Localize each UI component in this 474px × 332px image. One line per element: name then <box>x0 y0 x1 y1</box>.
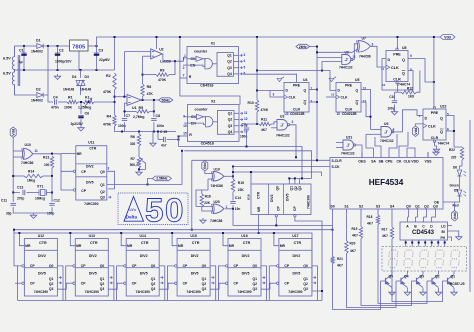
svg-text:1: 1 <box>226 205 228 209</box>
wire D6 to D5 <box>459 177 461 190</box>
wire U2 supply <box>156 37 158 49</box>
display digit <box>404 250 413 267</box>
svg-text:13: 13 <box>331 93 335 97</box>
svg-text:CLR: CLR <box>345 108 353 112</box>
wire CLE stub <box>406 148 408 152</box>
wire U22 clr to gnd <box>435 146 437 147</box>
buffer inside X1 <box>196 56 203 61</box>
svg-text:4: 4 <box>244 59 246 63</box>
resistor R8 body <box>141 84 144 97</box>
led arrows D6 <box>464 171 467 176</box>
wire U2 minus in <box>143 55 151 57</box>
clock pin circle <box>276 282 278 284</box>
svg-text:Q: Q <box>356 89 359 93</box>
svg-text:Q3: Q3 <box>298 186 302 191</box>
svg-text:LV's: LV's <box>130 208 137 212</box>
wire U10 in b <box>13 156 23 158</box>
resistor R2 body <box>113 73 116 90</box>
svg-text:OES: OES <box>358 160 366 164</box>
wire vertical 2kHz node <box>316 47 318 161</box>
svg-text:R18: R18 <box>367 215 373 219</box>
wire C3 branch <box>96 46 98 70</box>
wire R8 bottom <box>142 97 144 101</box>
wire U12 cp2 stub <box>15 282 20 284</box>
wire X1 R to X2 <box>180 37 240 105</box>
wire U18 Q3 stub <box>299 178 301 184</box>
wire VDD net <box>407 148 415 152</box>
svg-text:U18: U18 <box>247 194 251 200</box>
wire Q3 collector <box>422 271 424 274</box>
wire to S0 column <box>233 209 333 226</box>
svg-text:MR: MR <box>77 152 83 156</box>
clk triangle U8 <box>386 65 390 69</box>
wire <box>60 153 62 155</box>
junction <box>13 229 15 231</box>
divider line <box>177 249 210 251</box>
svg-text:R17: R17 <box>382 228 388 232</box>
wire pin Q3 stub down <box>435 209 437 214</box>
svg-text:DIV2: DIV2 <box>270 194 274 202</box>
wire to ground mid <box>152 132 154 142</box>
junction <box>222 232 224 234</box>
capacitor C13 plates <box>23 190 25 195</box>
wire U7 out to U8 clk <box>371 46 386 67</box>
junction <box>295 156 297 158</box>
resistor R19 body <box>359 227 362 239</box>
svg-text:Q1: Q1 <box>151 277 156 281</box>
wire U20 in a <box>196 206 213 208</box>
junction <box>301 177 303 179</box>
junction <box>96 69 98 71</box>
junction <box>332 229 334 231</box>
svg-text:U10: U10 <box>25 143 31 147</box>
ground Q5 <box>389 290 395 295</box>
wire R7 down <box>138 168 140 170</box>
wire U20 in <box>202 207 213 211</box>
wire U8 qbar to D loop <box>382 59 413 91</box>
svg-text:S3: S3 <box>376 205 380 209</box>
wire S2 column <box>360 214 362 227</box>
svg-text:1K8: 1K8 <box>408 94 414 98</box>
wire R stub X2 <box>179 135 188 137</box>
svg-text:4K7: 4K7 <box>261 128 267 132</box>
divider line <box>75 267 108 269</box>
wire segment a <box>405 240 407 247</box>
wire Q0 to A <box>408 214 409 217</box>
wire to D4 D3 <box>80 70 82 78</box>
wire to C9 <box>247 124 258 127</box>
wire R11 to U3 <box>271 122 277 124</box>
svg-text:Q1: Q1 <box>415 205 420 209</box>
svg-text:Q: Q <box>402 58 405 62</box>
wire cp stub <box>71 265 73 267</box>
crystal XT1 <box>39 190 47 196</box>
arrow Q1 <box>262 276 265 278</box>
svg-text:MR: MR <box>76 244 82 248</box>
wire R16 top <box>202 179 208 194</box>
clock pin circle <box>22 265 24 267</box>
capacitor C7 plates <box>122 119 127 121</box>
svg-text:470K: 470K <box>261 108 269 112</box>
wire rail right <box>160 131 176 133</box>
svg-text:U3: U3 <box>280 115 284 119</box>
junction <box>23 45 25 47</box>
clock pin circle <box>226 265 228 267</box>
svg-text:R4: R4 <box>107 115 112 119</box>
wire inside to register <box>213 121 218 123</box>
wire inside en <box>188 123 205 124</box>
resistor R12 body <box>401 91 417 94</box>
wire inside <box>204 117 206 120</box>
gate U10 74HC86 <box>22 148 33 159</box>
wire cp2 stub <box>274 282 276 284</box>
resistor K1 trimmer <box>83 100 94 103</box>
clock pin circle <box>175 282 177 284</box>
svg-text:1N4002: 1N4002 <box>31 99 43 103</box>
wire to C8 <box>153 111 155 117</box>
wire U4 Qbar out <box>309 101 317 103</box>
svg-text:8: 8 <box>410 68 412 72</box>
wire U11 Q1 out <box>107 183 148 185</box>
junction <box>121 131 123 133</box>
wire Q4 emitter <box>407 288 409 290</box>
svg-text:DIV5: DIV5 <box>242 272 250 276</box>
wire U18 cp1 down <box>275 217 277 225</box>
junction <box>250 171 252 173</box>
svg-text:CLR: CLR <box>431 136 439 140</box>
7-segment display module <box>382 247 467 272</box>
wire Q0 down to bus <box>261 266 267 301</box>
wire Q0 down to bus <box>210 266 216 301</box>
ground under C6 <box>78 126 84 131</box>
svg-text:CLR: CLR <box>293 108 301 112</box>
clock pin circle U11 <box>73 189 75 191</box>
wire U18 Q1 stub <box>288 178 290 184</box>
wire S0 column <box>332 214 334 257</box>
svg-text:CLK: CLK <box>391 66 399 70</box>
svg-text:PH: PH <box>441 236 446 240</box>
svg-text:Q1: Q1 <box>100 277 105 281</box>
ground HEF top <box>433 150 439 155</box>
junction <box>437 242 439 244</box>
svg-text:Delta: Delta <box>126 214 138 219</box>
divider line <box>228 267 261 269</box>
wire to crystal row <box>51 176 53 193</box>
svg-text:U16: U16 <box>241 234 247 238</box>
clock pin U18 cp2 <box>294 215 296 217</box>
resistor R14 body <box>24 174 43 177</box>
resistor R9 body <box>156 73 169 76</box>
counter U13 74HC390 box <box>75 239 108 297</box>
svg-text:HEF4534: HEF4534 <box>369 178 404 187</box>
svg-text:U9: U9 <box>384 122 388 126</box>
wire U22 clk in <box>416 124 424 126</box>
wire Q3 to next CP2 <box>261 283 274 289</box>
svg-text:C9: C9 <box>242 123 246 127</box>
wire 7805 output <box>88 45 97 47</box>
arrow Q2 <box>211 282 214 284</box>
svg-text:U12: U12 <box>38 234 44 238</box>
svg-text:4n7: 4n7 <box>161 144 167 148</box>
wire Q1 collector <box>453 271 455 274</box>
svg-text:C4: C4 <box>53 96 58 100</box>
junction <box>294 177 296 179</box>
wire inside <box>203 59 205 62</box>
wire U21 in b <box>336 147 343 149</box>
svg-text:U13: U13 <box>89 234 95 238</box>
preset symbol U4 <box>277 77 284 82</box>
divider line <box>126 267 159 269</box>
wire U4 CLK in <box>276 96 285 98</box>
wire C4 to R1 <box>58 101 67 103</box>
wire pin Q2 stub down <box>426 209 428 214</box>
svg-text:470K: 470K <box>103 90 112 94</box>
wire cp stub <box>173 265 175 267</box>
svg-text:MR: MR <box>127 244 133 248</box>
gate U21 74HC132 <box>343 140 356 150</box>
wire Q3 out <box>234 67 239 69</box>
svg-text:6.5V: 6.5V <box>3 72 11 76</box>
svg-text:R1: R1 <box>68 96 73 100</box>
svg-text:CD4013B: CD4013B <box>342 112 357 116</box>
svg-text:74HC390: 74HC390 <box>85 290 99 294</box>
wire D stub up <box>431 217 433 222</box>
wire D5 to OE <box>459 197 462 203</box>
wire trimmer wiper <box>139 161 146 169</box>
clk triangle U5 <box>336 95 340 99</box>
svg-text:SA: SA <box>371 160 376 164</box>
resistor R16 body <box>200 194 203 208</box>
wire minus feedback column <box>142 56 144 84</box>
ground U22 <box>433 147 439 152</box>
junction <box>114 101 116 103</box>
wire Q2 emitter <box>438 288 440 290</box>
svg-text:DIV5: DIV5 <box>191 272 199 276</box>
wire S4 column <box>391 214 393 227</box>
gate U3 74HC132 <box>277 120 290 131</box>
ground oscillator <box>30 213 36 218</box>
arrow Q2 <box>160 282 163 284</box>
svg-text:15: 15 <box>183 132 187 136</box>
display digit <box>450 250 459 267</box>
junction <box>157 131 159 133</box>
wire R2 from rail <box>114 37 116 70</box>
svg-text:R9: R9 <box>160 69 164 73</box>
svg-text:C13: C13 <box>17 186 23 190</box>
svg-text:3: 3 <box>372 42 374 46</box>
svg-text:R12: R12 <box>407 87 413 91</box>
wire Q5 emitter <box>391 288 393 290</box>
flip-flop U22 box <box>423 109 446 140</box>
junction <box>88 101 90 103</box>
clk triangle U4 <box>284 95 288 99</box>
wire Q0 down to bus <box>159 266 165 301</box>
svg-text:74HC86: 74HC86 <box>21 161 34 165</box>
divider line <box>75 249 108 251</box>
wire Q2 collector <box>438 271 440 274</box>
IC HEF4534 box <box>330 158 443 210</box>
svg-text:1Meg: 1Meg <box>27 179 35 183</box>
svg-text:CLE: CLE <box>404 160 412 164</box>
junction <box>256 90 258 92</box>
arrow Q1 <box>160 276 163 278</box>
wire R14 right <box>43 175 52 177</box>
svg-text:Q1: Q1 <box>49 277 54 281</box>
logo triangle <box>124 197 144 222</box>
wire inside en <box>188 65 205 66</box>
xor U7 74HC86 <box>357 41 371 53</box>
wire Q0 down to bus <box>57 266 63 301</box>
svg-text:C2: C2 <box>59 49 64 53</box>
wire Q0 down to bus <box>312 266 318 301</box>
wire MR U14 to bus <box>121 233 126 246</box>
svg-text:1N4148: 1N4148 <box>63 88 74 92</box>
junction <box>232 175 234 177</box>
svg-text:CTR: CTR <box>192 241 200 245</box>
svg-text:DIV5: DIV5 <box>89 272 97 276</box>
svg-text:Q2: Q2 <box>202 282 207 286</box>
svg-text:Q3: Q3 <box>202 287 207 291</box>
wire U18 Q2 stub <box>294 178 296 184</box>
capacitor C14 plates <box>230 202 235 204</box>
svg-text:CTR: CTR <box>141 241 149 245</box>
wire U6 in b <box>322 61 342 63</box>
svg-text:100n: 100n <box>157 124 165 128</box>
junction <box>138 168 140 170</box>
svg-text:Q0: Q0 <box>406 205 411 209</box>
divider line U11 <box>76 163 107 165</box>
arrow Q2 <box>240 60 243 62</box>
wire U18 Q header <box>289 177 311 179</box>
wire cp stub <box>224 265 226 267</box>
wire rail to R6 <box>138 132 140 135</box>
svg-text:C 15: C 15 <box>160 130 167 134</box>
svg-text:Q3: Q3 <box>433 205 438 209</box>
svg-text:Q: Q <box>304 101 307 105</box>
arrow Q2 <box>262 282 265 284</box>
svg-text:74HC132: 74HC132 <box>276 134 290 138</box>
wire MR U17 to bus <box>274 233 279 246</box>
svg-text:39p: 39p <box>6 212 12 216</box>
svg-text:CPE: CPE <box>385 160 393 164</box>
capacitor C8 plates <box>151 119 156 121</box>
junction <box>444 242 446 244</box>
display digit <box>419 250 428 267</box>
svg-text:S-CK: S-CK <box>332 165 341 169</box>
buffer inside X2 <box>197 114 204 119</box>
junction <box>69 232 71 234</box>
svg-text:Q3: Q3 <box>49 287 54 291</box>
counter U14 74HC390 box <box>126 239 159 297</box>
ground R7 <box>136 170 142 175</box>
wire bus up to CP1 <box>117 266 122 301</box>
wire MR U13 to bus <box>70 233 75 246</box>
svg-text:4K7: 4K7 <box>382 234 388 238</box>
wire CK stub X2 <box>184 116 188 118</box>
junction <box>321 70 323 72</box>
wire pin SB stub <box>380 152 382 158</box>
wire R10 to R11 <box>256 112 258 124</box>
svg-text:D: D <box>425 117 428 121</box>
svg-text:4: 4 <box>393 128 395 132</box>
divider line <box>228 249 261 251</box>
wire CK net <box>399 132 408 152</box>
junction <box>316 89 318 91</box>
junction <box>288 177 290 179</box>
wire pin S2 stub down <box>360 209 362 214</box>
svg-text:R14: R14 <box>28 170 34 174</box>
wire R13 down <box>51 168 53 176</box>
wire U5 Q out <box>361 90 371 130</box>
divider line <box>126 249 159 251</box>
clk triangle U22 <box>423 124 427 128</box>
arrow Q2 <box>313 282 316 284</box>
wire D4 D3 bottom <box>78 85 83 87</box>
junction <box>418 242 420 244</box>
svg-text:12: 12 <box>244 117 248 121</box>
svg-text:counter: counter <box>194 49 208 53</box>
svg-text:R10: R10 <box>248 101 254 105</box>
svg-text:R: R <box>189 75 192 79</box>
svg-text:Q3: Q3 <box>100 196 105 200</box>
svg-text:6: 6 <box>244 72 246 76</box>
transistor Q5 <box>381 275 393 288</box>
svg-text:Q4: Q4 <box>228 130 233 134</box>
svg-text:Q2: Q2 <box>253 282 258 286</box>
wire to C6 <box>80 102 82 114</box>
svg-text:Q: Q <box>440 130 443 134</box>
svg-text:MR: MR <box>257 206 261 212</box>
qbar overline <box>440 128 443 130</box>
svg-text:50Hz: 50Hz <box>162 98 171 102</box>
svg-text:330: 330 <box>130 142 136 146</box>
svg-text:4K7: 4K7 <box>337 264 343 268</box>
svg-text:U17: U17 <box>292 234 298 238</box>
svg-text:4K7: 4K7 <box>367 222 373 226</box>
junction <box>424 242 426 244</box>
clock pin circle <box>73 265 75 267</box>
svg-text:R19: R19 <box>352 227 358 231</box>
wire cp2 stub <box>122 282 124 284</box>
wire U18 MR down <box>258 215 260 234</box>
wire C13 to XT1 <box>27 192 39 194</box>
svg-text:CLR: CLR <box>393 77 401 81</box>
wire U8 clr down <box>397 83 399 92</box>
wire Q2 out <box>234 61 239 63</box>
svg-text:470K: 470K <box>103 123 112 127</box>
svg-text:U8: U8 <box>402 46 407 50</box>
svg-text:Q2: Q2 <box>435 275 440 279</box>
transistor Q1 <box>443 275 455 288</box>
clock pin circle <box>73 282 75 284</box>
svg-text:U22: U22 <box>440 105 446 109</box>
svg-text:PRE: PRE <box>345 84 353 88</box>
wire pin VDD stub <box>414 152 416 158</box>
arrow Q3 <box>240 67 243 69</box>
svg-text:CP: CP <box>284 281 289 285</box>
svg-text:470n: 470n <box>51 106 59 110</box>
svg-text:74HC86: 74HC86 <box>211 184 224 188</box>
capacitor C1 plates <box>21 53 26 55</box>
wire to R10 <box>256 91 258 101</box>
svg-text:DIV5: DIV5 <box>140 272 148 276</box>
resistor R1 <box>67 100 78 103</box>
svg-text:U15: U15 <box>190 234 196 238</box>
junction <box>96 45 98 47</box>
svg-text:2: 2 <box>183 66 185 70</box>
wire pin Q1 stub down <box>417 209 419 214</box>
wire R9 feedback up <box>169 61 175 74</box>
